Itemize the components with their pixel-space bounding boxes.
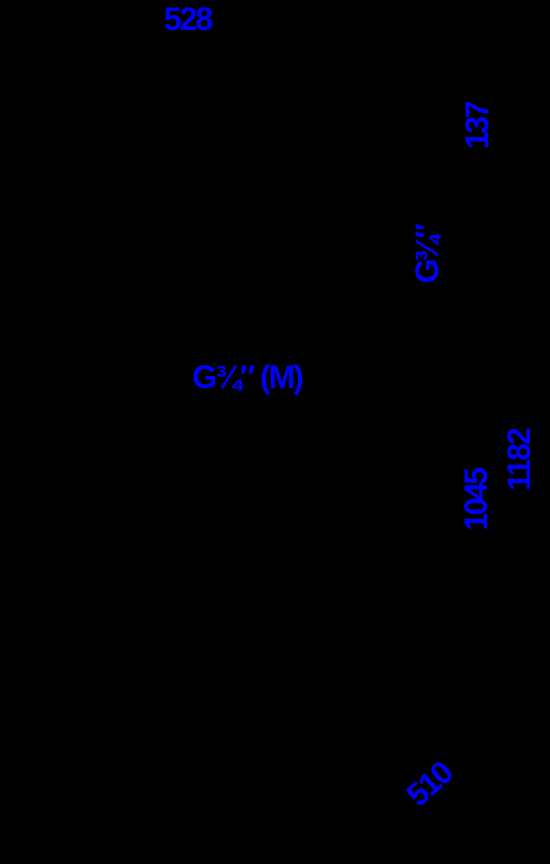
riser pipe — [399, 65, 401, 560]
dimension label 510 (diagonal, bottom) — [401, 756, 458, 811]
dimension extension lines — [60, 35, 515, 540]
dimension label 1182 (rotated, far right) — [503, 429, 535, 490]
dimension label G3/4" (rotated) — [411, 226, 443, 282]
dimension label 137 (rotated, right top) — [461, 103, 493, 149]
dimension label G3/4" (M) (horizontal, middle-left) — [192, 361, 302, 393]
hand shower hose — [331, 590, 430, 840]
shower arm — [330, 64, 400, 66]
overhead shower head — [60, 55, 330, 75]
thermostatic mixer body — [340, 540, 460, 590]
dimension label 1045 (rotated) — [460, 469, 492, 530]
dimension label 528 (top width) — [164, 3, 211, 35]
